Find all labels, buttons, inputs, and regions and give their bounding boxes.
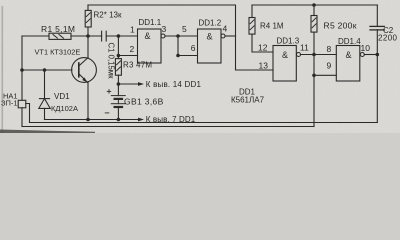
node: emitter junction — [86, 118, 90, 122]
svg-text:C1 0,15мк: C1 0,15мк — [106, 43, 115, 80]
resistor R1 — [49, 33, 71, 39]
wire: HA1 right lead to rail A — [26, 104, 30, 123]
svg-text:1: 1 — [130, 25, 135, 35]
gate DD1.1 output bubble — [161, 34, 165, 38]
resistor R2 — [87, 5, 89, 10]
svg-text:&: & — [282, 50, 288, 60]
paper background — [0, 0, 400, 133]
node: R5 top junction — [312, 3, 316, 7]
wire: R1 to collector node — [71, 35, 102, 37]
resistor R5 — [313, 5, 315, 16]
wire: tie vertical pin5-pin6 — [177, 36, 179, 56]
wire: R5 bottom vertical down to rail B — [313, 32, 315, 126]
svg-text:R1 5,1M: R1 5,1M — [41, 24, 75, 34]
svg-text:R5 200к: R5 200к — [324, 21, 357, 31]
wire: DD1.2 pin4 output to feedback corner — [225, 35, 236, 37]
wire: pin2 stub — [118, 55, 137, 57]
wire: battery bottom to pin7 node — [117, 99, 119, 104]
battery GB1 — [111, 95, 125, 97]
node: VD1 top junction — [43, 68, 47, 72]
wire: left vertical from R1 node down to HA1 — [21, 36, 23, 100]
gate DD1.4 box — [336, 46, 360, 82]
wire: rail A to C2/pin10 — [30, 122, 378, 124]
svg-text:GB1 3,6В: GB1 3,6В — [124, 97, 164, 107]
svg-text:2200: 2200 — [378, 34, 398, 43]
wire: arrow to pin 14 — [118, 83, 140, 85]
resistor R4 — [251, 5, 253, 18]
wire: top-left feedback rail R2 top to DD1.2 output — [88, 5, 236, 36]
gate DD1.2 box — [198, 29, 222, 63]
wire: DD1.4 pin10 output to C2 vertical — [364, 54, 377, 56]
wire: DD1.1 pin3 to DD1.2 pin5 — [165, 35, 198, 37]
diode VD1 — [44, 70, 46, 99]
wire: arrow to pin 7 — [118, 119, 140, 121]
svg-text:R3 47M: R3 47M — [123, 61, 152, 70]
wire: collector vertical — [87, 36, 89, 58]
node: base wire left junction — [20, 68, 24, 72]
node: pin14 node — [117, 82, 121, 86]
svg-text:R4 1M: R4 1M — [260, 22, 284, 31]
wire: R1 row left segment — [22, 35, 49, 37]
wire: vertical from pin4 down to pin13 row — [236, 36, 274, 70]
wire: R3 bottom to battery node — [117, 75, 119, 95]
wire: base wire — [22, 69, 72, 71]
resistor R3 — [115, 59, 121, 76]
gate DD1.4 output bubble — [360, 53, 364, 57]
node: pin8/R5 junction — [312, 53, 316, 57]
wire: pin6 stub — [178, 55, 198, 57]
svg-text:VT1 КТ3102Е: VT1 КТ3102Е — [35, 48, 81, 57]
wire: R4 bottom to pin12 — [252, 34, 273, 52]
svg-text:3: 3 — [162, 24, 167, 34]
gate DD1.3 box — [273, 46, 296, 82]
svg-text:КД102А: КД102А — [51, 104, 78, 113]
svg-text:К выв. 14 DD1: К выв. 14 DD1 — [146, 80, 202, 89]
buzzer HA1 — [18, 100, 26, 108]
left page-edge shadow — [2, 6, 4, 133]
wire: DD1.3 pin11 to DD1.4 pin8 — [301, 54, 337, 56]
svg-text:2: 2 — [130, 44, 135, 54]
capacitor C1 — [101, 31, 103, 41]
gate DD1.1 box — [138, 29, 162, 63]
node: pin7 node — [117, 118, 121, 122]
wire: C2 bottom vertical down to rail A — [376, 30, 378, 123]
svg-text:К выв. 7 DD1: К выв. 7 DD1 — [146, 115, 196, 124]
svg-text:&: & — [346, 50, 352, 60]
svg-text:VD1: VD1 — [54, 92, 70, 101]
svg-text:DD1.4: DD1.4 — [338, 37, 361, 46]
gate DD1.2 output bubble — [221, 34, 225, 38]
svg-text:6: 6 — [191, 43, 196, 53]
node: pin9 junction — [312, 74, 316, 78]
svg-text:9: 9 — [327, 61, 332, 71]
wire: pin7 wire from diode through emitter to battery — [45, 119, 119, 121]
node: DD1.2 pin5 junction — [176, 34, 180, 38]
svg-text:DD1.1: DD1.1 — [139, 18, 162, 27]
node: pin10/C2 junction — [376, 53, 380, 57]
transistor VT1 — [72, 58, 97, 83]
wire: top-right rail R4 to C2 — [252, 4, 377, 6]
node: collector/R1/R2/C1 junction — [86, 34, 90, 38]
svg-text:8: 8 — [327, 44, 332, 54]
svg-text:R2* 13к: R2* 13к — [94, 11, 122, 20]
svg-text:4: 4 — [223, 24, 228, 34]
bottom-left gutter shadow — [0, 130, 95, 134]
wire: input node vertical down to R3 — [117, 36, 119, 59]
wire: emitter vertical — [87, 83, 89, 120]
wire: rail B to pins 8/9 — [22, 126, 314, 128]
svg-text:DD1.3: DD1.3 — [277, 37, 300, 46]
svg-text:&: & — [145, 31, 151, 41]
wire: pin9 stub — [314, 74, 336, 76]
svg-text:ЗП-1: ЗП-1 — [1, 99, 18, 108]
node: DD1.1 pin2 junction — [117, 54, 121, 58]
svg-text:11: 11 — [300, 42, 309, 52]
svg-text:&: & — [207, 32, 213, 42]
wire: C1 to input node — [106, 35, 137, 37]
node: DD1.1 pin1 junction — [117, 34, 121, 38]
svg-text:DD1.2: DD1.2 — [199, 19, 222, 28]
gate DD1.3 output bubble — [297, 53, 301, 57]
wire: HA1 bottom lead to rail B — [21, 108, 23, 127]
svg-text:5: 5 — [182, 24, 187, 34]
svg-text:К561ЛА7: К561ЛА7 — [231, 96, 265, 105]
svg-text:12: 12 — [258, 43, 268, 53]
capacitor C2 — [376, 5, 378, 26]
svg-text:10: 10 — [361, 43, 371, 53]
svg-text:13: 13 — [259, 60, 269, 70]
node: DD1.2 pin6 junction — [176, 54, 180, 58]
